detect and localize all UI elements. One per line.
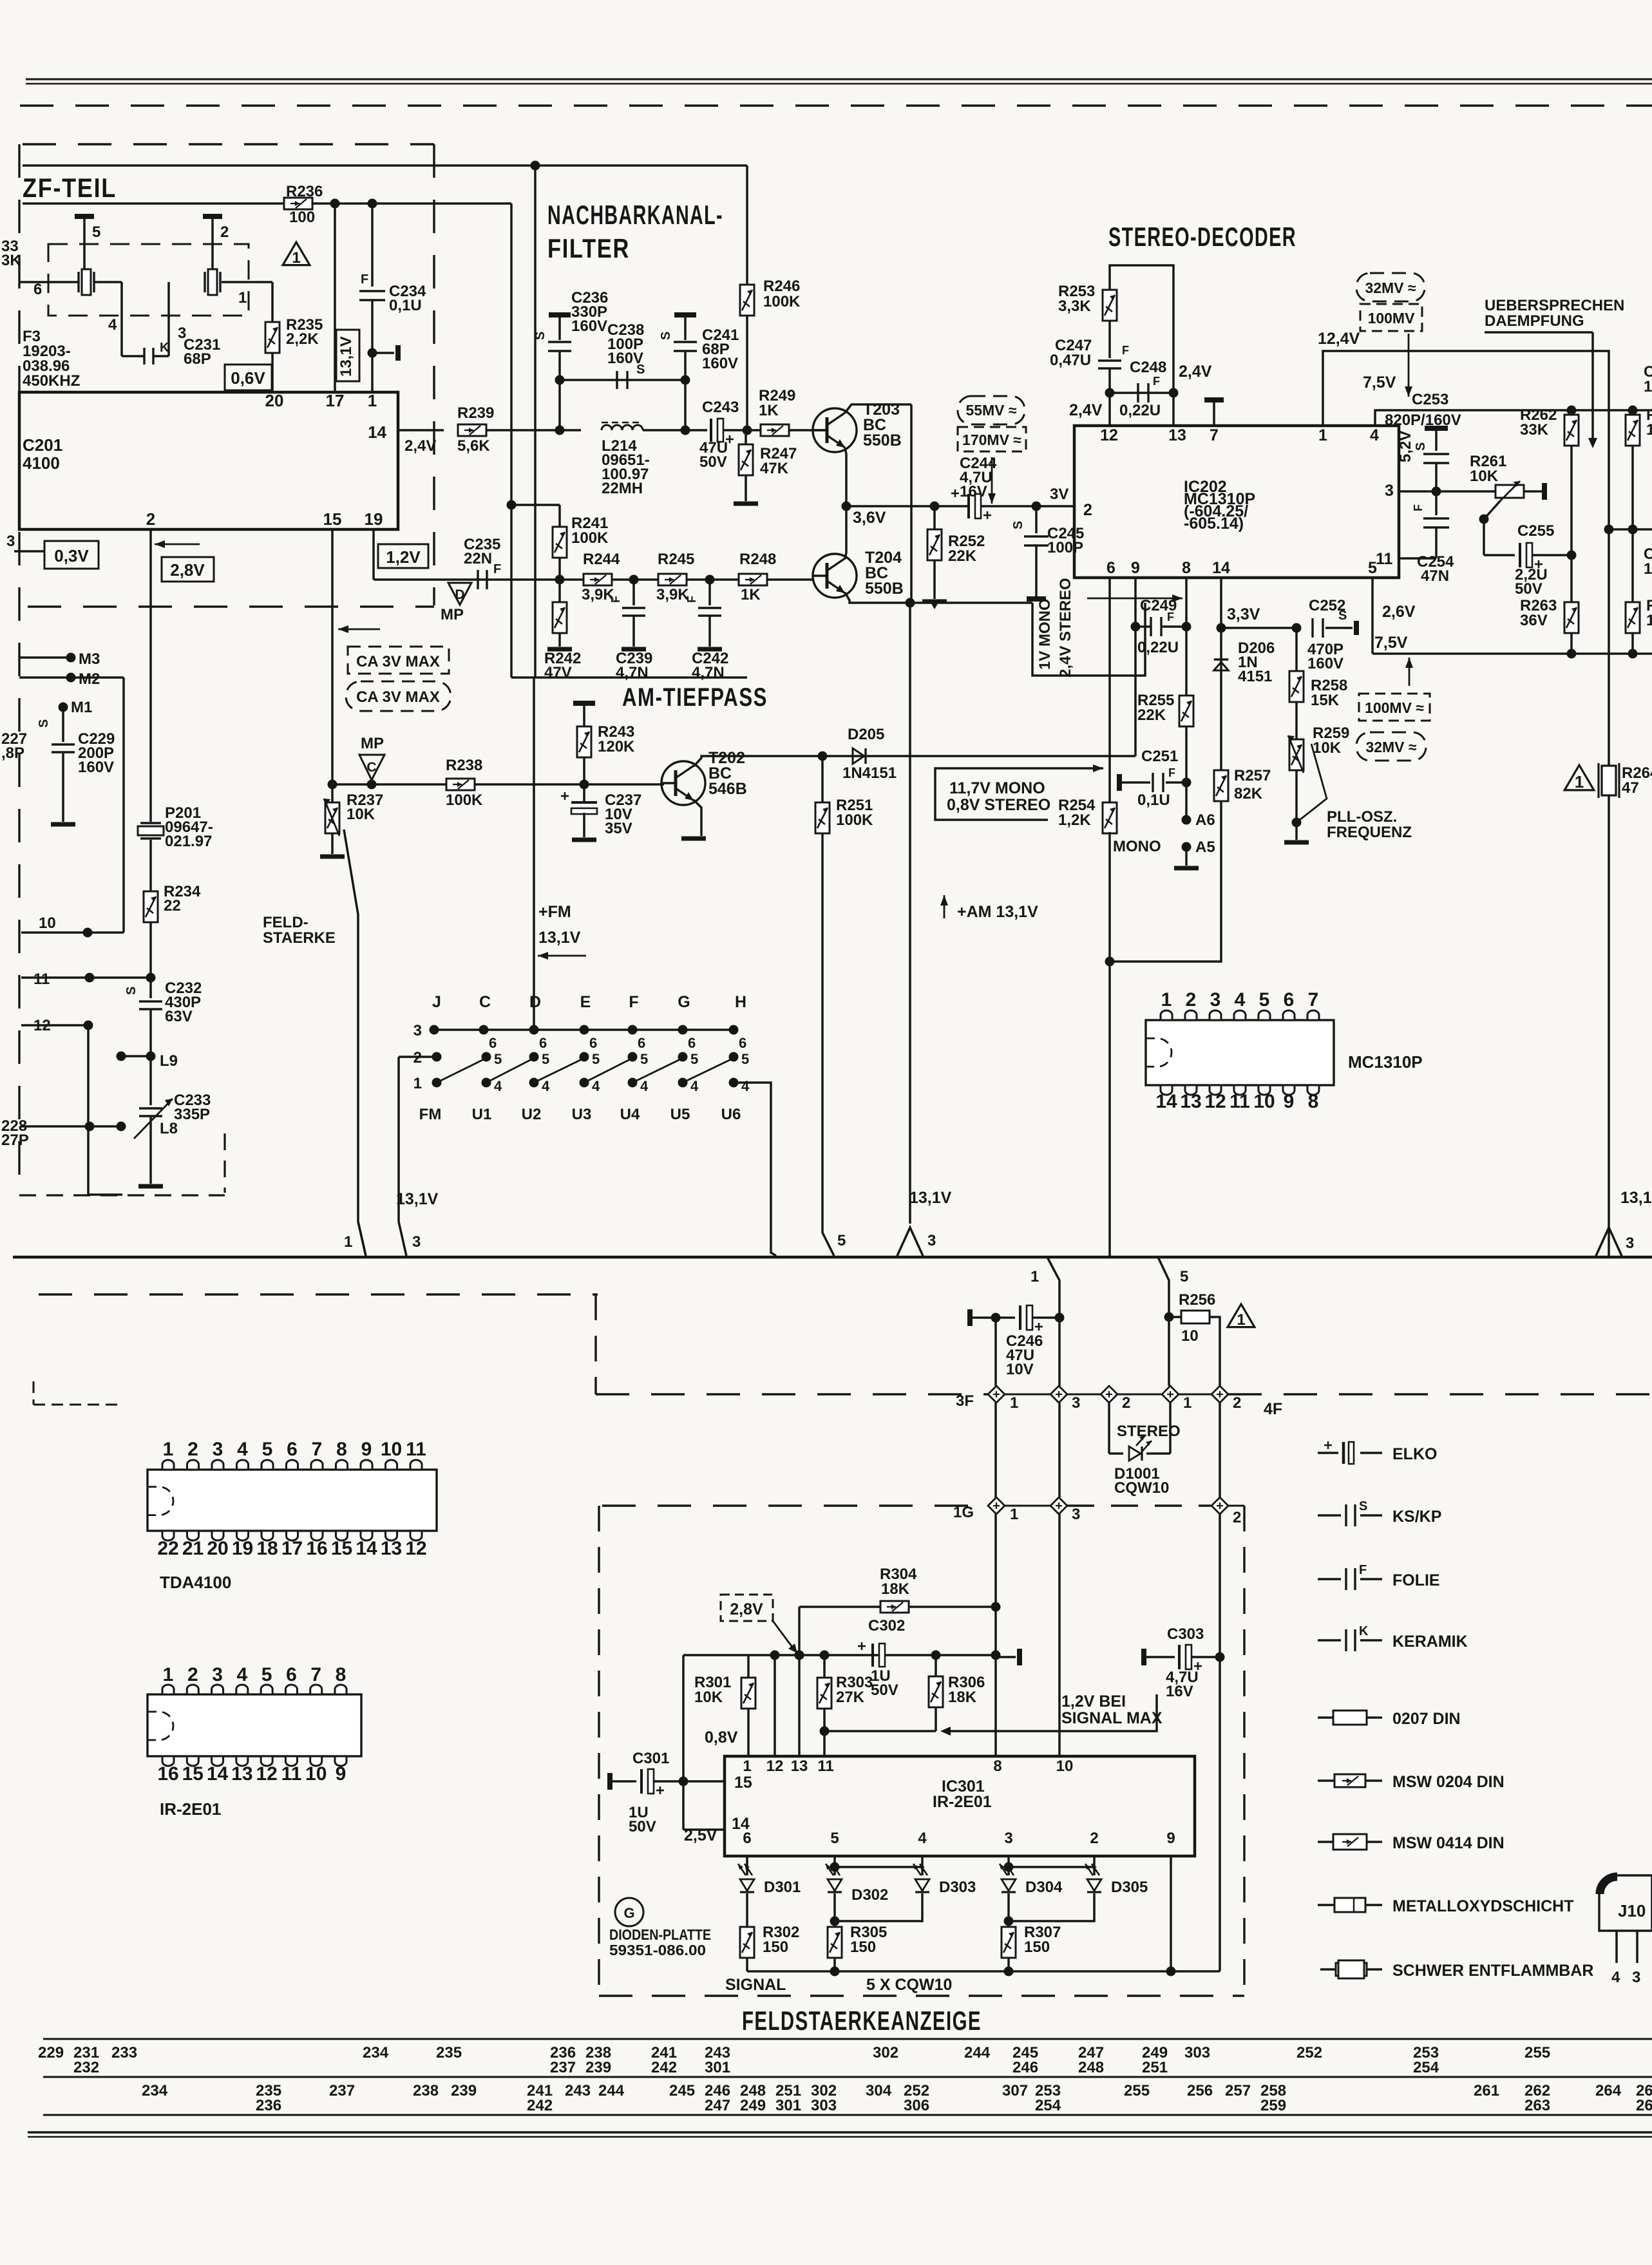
svg-text:0,3V: 0,3V bbox=[54, 546, 89, 565]
LED D301 bbox=[740, 1879, 754, 1891]
potentiometer R237 bbox=[331, 784, 334, 802]
svg-text:D303: D303 bbox=[939, 1879, 976, 1896]
dashed A mid2 bbox=[1067, 1394, 1101, 1396]
svg-text:243: 243 bbox=[565, 2082, 591, 2099]
wire pin3 down bbox=[1007, 1856, 1010, 1875]
wire R239 to L214 bbox=[486, 429, 581, 431]
wire D303 loop bbox=[835, 1893, 922, 1921]
svg-text:9: 9 bbox=[361, 1439, 372, 1460]
svg-text:22K: 22K bbox=[948, 547, 977, 565]
svg-text:-605.14): -605.14) bbox=[1184, 515, 1244, 533]
junction bbox=[328, 780, 337, 790]
svg-text:STEREO-DECODER: STEREO-DECODER bbox=[1108, 222, 1296, 252]
capacitor C244 bbox=[967, 494, 970, 518]
svg-text:S: S bbox=[124, 987, 138, 995]
capacitor C233 variable bbox=[149, 1056, 152, 1105]
svg-text:50V: 50V bbox=[1515, 580, 1543, 598]
MP triangle D bbox=[448, 583, 471, 605]
svg-text:U2: U2 bbox=[522, 1106, 542, 1123]
T203 collector wire bbox=[845, 404, 911, 413]
svg-text:1: 1 bbox=[1646, 421, 1652, 439]
dashed line A right bbox=[1228, 1393, 1652, 1395]
NACHBAR box left edge bbox=[534, 166, 536, 678]
chevron 3 mid bbox=[897, 1227, 923, 1256]
svg-text:1V MONO: 1V MONO bbox=[1036, 598, 1054, 670]
svg-text:1N4151: 1N4151 bbox=[842, 764, 897, 782]
svg-text:C253: C253 bbox=[1412, 391, 1448, 408]
wire AM column bbox=[910, 404, 913, 603]
wire pin14 link bbox=[683, 1828, 725, 1831]
FELD bottom bus bbox=[747, 1970, 1220, 1973]
trimmer P201 bbox=[140, 822, 161, 824]
junction bbox=[1567, 551, 1577, 560]
svg-text:5: 5 bbox=[542, 1051, 549, 1067]
svg-text:36V: 36V bbox=[1520, 612, 1548, 629]
wire R257 bottom bbox=[1110, 801, 1221, 962]
svg-text:4: 4 bbox=[690, 1078, 699, 1094]
capacitor C232 bbox=[149, 978, 152, 998]
svg-text:C255: C255 bbox=[1517, 522, 1554, 540]
wire C241 down bbox=[684, 380, 687, 430]
capacitor C253 bbox=[1425, 426, 1448, 431]
svg-text:15: 15 bbox=[323, 509, 342, 529]
svg-text:15K: 15K bbox=[1311, 692, 1340, 709]
diamond 3a bbox=[1050, 1386, 1067, 1403]
svg-text:R256: R256 bbox=[1179, 1291, 1215, 1309]
svg-text:S: S bbox=[37, 719, 51, 728]
svg-text:9: 9 bbox=[1166, 1830, 1175, 1847]
wire pin2 column bbox=[149, 529, 152, 822]
svg-text:17: 17 bbox=[326, 391, 345, 410]
wire pin15 column bbox=[331, 529, 334, 784]
svg-text:1: 1 bbox=[1161, 989, 1172, 1010]
svg-text:5: 5 bbox=[1259, 989, 1270, 1010]
LED D1001 stereo bbox=[1109, 1452, 1123, 1455]
svg-text:9: 9 bbox=[1284, 1091, 1295, 1112]
svg-text:550B: 550B bbox=[863, 431, 902, 450]
svg-text:247: 247 bbox=[705, 2097, 730, 2114]
svg-text:13: 13 bbox=[791, 1758, 808, 1775]
svg-text:KERAMIK: KERAMIK bbox=[1392, 1633, 1468, 1651]
dashed small corner bbox=[33, 1381, 35, 1405]
svg-text:S: S bbox=[533, 332, 547, 340]
svg-text:5: 5 bbox=[640, 1051, 648, 1067]
resistor R236 bbox=[284, 198, 312, 209]
svg-text:C302: C302 bbox=[868, 1617, 905, 1635]
svg-text:2,8V: 2,8V bbox=[730, 1600, 763, 1618]
resistor R258 bbox=[1295, 628, 1298, 671]
svg-text:10: 10 bbox=[1056, 1758, 1074, 1775]
T204 emitter wire bbox=[845, 592, 910, 603]
resistor R301 bbox=[747, 1655, 750, 1678]
slant connector 1 bbox=[1047, 1257, 1059, 1318]
diode D205 bbox=[853, 748, 864, 764]
svg-text:U1: U1 bbox=[472, 1106, 492, 1123]
T202 emitter bbox=[694, 800, 701, 836]
dashed A mid3 bbox=[1117, 1394, 1162, 1396]
svg-text:4: 4 bbox=[741, 1078, 750, 1094]
svg-text:M3: M3 bbox=[79, 650, 100, 668]
svg-text:307: 307 bbox=[1002, 2082, 1028, 2099]
svg-text:2,6V: 2,6V bbox=[1382, 603, 1416, 621]
svg-text:F: F bbox=[1168, 766, 1175, 779]
svg-text:12: 12 bbox=[256, 1763, 277, 1785]
svg-text:238: 238 bbox=[413, 2082, 439, 2099]
svg-text:1: 1 bbox=[163, 1664, 174, 1685]
svg-text:S: S bbox=[1011, 521, 1025, 529]
capacitor C238 bbox=[616, 371, 618, 389]
wire 2b col down bbox=[1219, 1657, 1221, 1971]
svg-text:3,9K: 3,9K bbox=[656, 586, 689, 603]
T203 emitter wire bbox=[845, 448, 846, 506]
svg-text:263: 263 bbox=[1524, 2097, 1550, 2114]
box CA 3V MAX bbox=[348, 647, 449, 674]
IC IC202 box bbox=[1074, 426, 1399, 578]
crystal Q1 top stub bbox=[83, 219, 86, 272]
svg-text:J: J bbox=[432, 993, 441, 1011]
svg-text:244: 244 bbox=[964, 2044, 991, 2061]
svg-text:5: 5 bbox=[741, 1051, 749, 1067]
svg-text:12: 12 bbox=[1100, 426, 1118, 444]
svg-text:E: E bbox=[580, 993, 591, 1011]
wire 2a column bbox=[1108, 1403, 1110, 1454]
svg-text:6: 6 bbox=[1106, 559, 1116, 577]
svg-text:8: 8 bbox=[993, 1758, 1002, 1775]
ground bbox=[320, 855, 345, 859]
svg-text:335P: 335P bbox=[174, 1106, 210, 1123]
svg-text:0,22U: 0,22U bbox=[1119, 402, 1161, 419]
arrow 7,5V up bbox=[1409, 658, 1410, 686]
box 2,8V dashed bbox=[721, 1595, 773, 1621]
svg-text:METALLOXYDSCHICHT: METALLOXYDSCHICHT bbox=[1392, 1897, 1573, 1915]
svg-text:82K: 82K bbox=[1234, 785, 1263, 802]
svg-text:R238: R238 bbox=[446, 757, 482, 774]
resistor R243 bbox=[577, 726, 591, 757]
svg-text:6: 6 bbox=[743, 1830, 751, 1847]
svg-text:1,2K: 1,2K bbox=[1058, 811, 1091, 829]
svg-text:2: 2 bbox=[187, 1664, 198, 1685]
resistor R246 bbox=[740, 285, 754, 316]
wire R304 row bbox=[799, 1606, 880, 1608]
diamond 2c bbox=[1211, 1497, 1228, 1514]
svg-text:11: 11 bbox=[1230, 1091, 1250, 1112]
svg-text:13,1V: 13,1V bbox=[538, 929, 581, 947]
wire pin19 column bbox=[372, 529, 375, 580]
FELD box dashed left bbox=[598, 1506, 600, 1996]
svg-text:C301: C301 bbox=[632, 1750, 669, 1767]
wire switch row6 bbox=[434, 1028, 734, 1031]
contact A6 bbox=[1182, 815, 1192, 825]
svg-text:0,1U: 0,1U bbox=[389, 297, 422, 314]
wire F3 in bbox=[20, 281, 79, 283]
ground bbox=[1284, 840, 1309, 845]
wire crystal2 out bbox=[222, 281, 272, 283]
svg-text:13,1V: 13,1V bbox=[1620, 1189, 1652, 1207]
svg-text:8: 8 bbox=[1182, 559, 1191, 577]
svg-text:2: 2 bbox=[220, 223, 229, 241]
svg-text:3: 3 bbox=[1632, 1969, 1640, 1986]
svg-text:5: 5 bbox=[494, 1051, 502, 1067]
svg-text:C248: C248 bbox=[1130, 359, 1166, 376]
svg-text:4: 4 bbox=[542, 1078, 550, 1094]
svg-text:3: 3 bbox=[1385, 482, 1394, 500]
svg-text:100K: 100K bbox=[571, 529, 609, 547]
capacitor C246 bbox=[967, 1309, 973, 1326]
svg-text:16V: 16V bbox=[1166, 1683, 1193, 1700]
G circle bbox=[615, 1898, 643, 1926]
svg-text:021.97: 021.97 bbox=[165, 833, 212, 850]
svg-text:10V: 10V bbox=[1006, 1361, 1034, 1378]
svg-text:245: 245 bbox=[669, 2082, 695, 2099]
oval 32MV bbox=[1356, 273, 1425, 301]
svg-text:1: 1 bbox=[1644, 560, 1652, 578]
svg-text:10: 10 bbox=[1181, 1327, 1199, 1345]
resistor R304 bbox=[880, 1601, 909, 1613]
svg-text:27P: 27P bbox=[1, 1132, 29, 1149]
ground bbox=[734, 502, 758, 506]
resistor R265 bbox=[1631, 410, 1634, 415]
svg-text:5,6K: 5,6K bbox=[457, 437, 490, 455]
svg-text:D304: D304 bbox=[1025, 1879, 1063, 1896]
R261 wiper to C255 bbox=[1484, 500, 1501, 555]
index rule 1 bbox=[43, 2038, 1652, 2040]
svg-text:2: 2 bbox=[1090, 1830, 1098, 1847]
svg-text:266: 266 bbox=[1636, 2097, 1652, 2114]
svg-text:236: 236 bbox=[256, 2097, 281, 2114]
svg-text:5: 5 bbox=[592, 1051, 600, 1067]
wire R235 to pin20 bbox=[271, 353, 274, 392]
svg-text:5,2V: 5,2V bbox=[1397, 431, 1414, 462]
svg-text:59351-086.00: 59351-086.00 bbox=[609, 1942, 706, 1958]
svg-text:6: 6 bbox=[287, 1439, 298, 1460]
svg-text:13,1V: 13,1V bbox=[337, 336, 355, 377]
svg-text:F: F bbox=[685, 596, 698, 603]
svg-text:2: 2 bbox=[1122, 1394, 1130, 1412]
stub right of col8 bbox=[996, 1656, 1016, 1658]
svg-text:160V: 160V bbox=[571, 317, 607, 335]
svg-text:261: 261 bbox=[1474, 2082, 1499, 2099]
svg-text:MC1310P: MC1310P bbox=[1348, 1052, 1423, 1072]
svg-text:22: 22 bbox=[157, 1538, 178, 1559]
svg-text:8: 8 bbox=[336, 1664, 347, 1685]
svg-text:3: 3 bbox=[6, 533, 15, 550]
wire C236-C238 bbox=[560, 379, 685, 381]
svg-text:15: 15 bbox=[331, 1538, 352, 1559]
svg-text:2,8V: 2,8V bbox=[170, 560, 205, 580]
contacts row5 bbox=[432, 1052, 442, 1062]
legend MSW 0414 DIN bbox=[1318, 1841, 1333, 1843]
svg-text:7,5V: 7,5V bbox=[1363, 374, 1396, 392]
wire pin3 bbox=[1399, 490, 1495, 493]
svg-text:R246: R246 bbox=[763, 278, 800, 295]
chevron 5 mid bbox=[822, 1224, 834, 1256]
svg-text:F: F bbox=[1359, 1563, 1367, 1577]
svg-text:4: 4 bbox=[640, 1078, 649, 1094]
svg-text:233: 233 bbox=[111, 2044, 137, 2061]
svg-text:5: 5 bbox=[262, 1439, 273, 1460]
svg-text:2,5V: 2,5V bbox=[684, 1826, 717, 1844]
svg-text:G: G bbox=[623, 1905, 634, 1921]
wire 2500-2535 bbox=[1609, 528, 1652, 531]
svg-text:FREQUENZ: FREQUENZ bbox=[1327, 824, 1412, 841]
svg-text:3: 3 bbox=[1072, 1506, 1080, 1523]
junction bbox=[1131, 622, 1141, 632]
junction bbox=[906, 598, 915, 608]
junction bbox=[818, 752, 828, 761]
svg-text:9: 9 bbox=[336, 1763, 347, 1785]
dashed A mid4 bbox=[1179, 1394, 1211, 1396]
wire C235 row bbox=[374, 578, 813, 581]
chevron 3 right bbox=[1596, 1227, 1622, 1256]
wire pin12 stub bbox=[1108, 393, 1111, 426]
junction 3,3V bbox=[1217, 623, 1226, 633]
wire pin9 col bbox=[1134, 578, 1137, 756]
inductor L214 bbox=[602, 425, 643, 430]
wire 3,3V row bbox=[1221, 627, 1296, 629]
svg-text:7: 7 bbox=[310, 1664, 321, 1685]
voltage box 0,6V bbox=[225, 365, 272, 390]
resistor R257 bbox=[1214, 770, 1228, 801]
capacitor C254 bbox=[1435, 491, 1438, 515]
wire M3 bbox=[19, 656, 71, 659]
svg-text:PLL-OSZ.: PLL-OSZ. bbox=[1327, 808, 1397, 826]
svg-text:6: 6 bbox=[1284, 989, 1295, 1010]
ground bbox=[547, 647, 572, 652]
svg-text:4: 4 bbox=[237, 1664, 248, 1685]
svg-text:K: K bbox=[1359, 1624, 1369, 1638]
warning triangle bbox=[1228, 1304, 1255, 1327]
svg-text:18K: 18K bbox=[881, 1580, 910, 1598]
svg-text:STEREO: STEREO bbox=[1117, 1423, 1181, 1440]
svg-text:MSW 0414 DIN: MSW 0414 DIN bbox=[1392, 1834, 1505, 1852]
svg-text:100K: 100K bbox=[836, 811, 873, 829]
svg-text:8: 8 bbox=[336, 1439, 347, 1460]
svg-text:3F: 3F bbox=[956, 1392, 974, 1410]
svg-text:257: 257 bbox=[1225, 2082, 1251, 2099]
junction bbox=[1032, 502, 1041, 511]
svg-text:5 X CQW10: 5 X CQW10 bbox=[866, 1976, 952, 1994]
resistor R264 metalloxyd bbox=[1597, 763, 1599, 798]
svg-text:1: 1 bbox=[1183, 1394, 1192, 1412]
svg-text:1: 1 bbox=[1646, 612, 1652, 629]
arrow 170MV down bbox=[991, 457, 993, 504]
resistor R266 bbox=[1626, 602, 1640, 633]
legend FOLIE bbox=[1318, 1578, 1341, 1580]
svg-text:22N: 22N bbox=[464, 550, 492, 567]
svg-text:237: 237 bbox=[329, 2082, 355, 2099]
voltage box 2,8V bbox=[162, 557, 214, 582]
svg-text:3K: 3K bbox=[1, 252, 21, 269]
svg-text:F: F bbox=[609, 596, 622, 603]
voltage box 13,1V bbox=[336, 330, 359, 381]
junction bbox=[1567, 406, 1577, 415]
wire L8 bbox=[21, 1125, 121, 1128]
svg-text:ELKO: ELKO bbox=[1392, 1445, 1437, 1463]
svg-text:11,7V MONO: 11,7V MONO bbox=[949, 779, 1045, 797]
resistor R305 bbox=[828, 1927, 842, 1958]
wire D302-D303 link bbox=[835, 1866, 922, 1868]
svg-text:100MV: 100MV bbox=[1368, 310, 1416, 327]
svg-text:L9: L9 bbox=[160, 1052, 178, 1070]
svg-text:D301: D301 bbox=[764, 1879, 801, 1896]
wire M2 bbox=[19, 676, 124, 679]
svg-text:100K: 100K bbox=[763, 293, 801, 310]
svg-text:47N: 47N bbox=[1421, 567, 1449, 585]
svg-text:2,4V: 2,4V bbox=[1179, 363, 1212, 381]
voltage box 1,2V bbox=[378, 544, 428, 568]
svg-text:IR-2E01: IR-2E01 bbox=[160, 1799, 221, 1819]
svg-text:6: 6 bbox=[589, 1035, 597, 1051]
svg-text:4: 4 bbox=[1235, 989, 1246, 1010]
svg-text:235: 235 bbox=[436, 2044, 462, 2061]
svg-text:12: 12 bbox=[1204, 1091, 1226, 1112]
index rule 2 bbox=[43, 2076, 1652, 2078]
wire pin11 bbox=[1399, 557, 1436, 560]
svg-text:CA 3V MAX: CA 3V MAX bbox=[356, 688, 440, 706]
wire pin13 col bbox=[798, 1607, 801, 1756]
svg-text:3: 3 bbox=[927, 1232, 936, 1249]
arrow +FM bbox=[538, 955, 586, 957]
svg-text:234: 234 bbox=[363, 2044, 389, 2061]
svg-text:35V: 35V bbox=[605, 820, 632, 837]
svg-text:55MV ≈: 55MV ≈ bbox=[965, 402, 1016, 419]
svg-text:14: 14 bbox=[1212, 559, 1230, 577]
wire C234 gnd stub bbox=[368, 348, 377, 358]
arrow 100MV down bbox=[1408, 334, 1410, 397]
svg-text:2,4V: 2,4V bbox=[1069, 401, 1103, 419]
svg-text:12,4V: 12,4V bbox=[1318, 330, 1360, 348]
wire col 3b down bbox=[1058, 1514, 1061, 1756]
svg-text:248: 248 bbox=[1078, 2059, 1104, 2076]
wire pin13 stub bbox=[1172, 393, 1175, 426]
ground arrow bbox=[922, 600, 947, 604]
resistor R239 bbox=[458, 424, 486, 436]
contacts row6 bbox=[430, 1025, 439, 1035]
svg-text:550B: 550B bbox=[865, 580, 904, 598]
IC IC201 TDA4100 bbox=[19, 392, 398, 529]
LED D305 bbox=[1087, 1879, 1101, 1891]
svg-text:R257: R257 bbox=[1234, 767, 1271, 784]
svg-text:S: S bbox=[1414, 442, 1428, 451]
svg-text:1K: 1K bbox=[759, 402, 779, 419]
crystal Q2 bbox=[204, 272, 205, 292]
resistor R302 bbox=[740, 1927, 754, 1958]
svg-text:32MV ≈: 32MV ≈ bbox=[1365, 739, 1416, 755]
svg-text:6: 6 bbox=[489, 1035, 497, 1051]
svg-text:MONO: MONO bbox=[1113, 838, 1161, 855]
R253 loop wire bbox=[1110, 265, 1173, 393]
IC IR-2E01 DIP bbox=[147, 1694, 361, 1756]
svg-text:150: 150 bbox=[1024, 1938, 1050, 1956]
resistor R242 bbox=[558, 580, 561, 602]
svg-text:D305: D305 bbox=[1111, 1879, 1148, 1896]
wire C243-R249 bbox=[723, 429, 761, 431]
svg-text:13: 13 bbox=[381, 1538, 402, 1559]
wire R236 to C234 corner bbox=[510, 204, 513, 678]
LED D302 bbox=[828, 1879, 842, 1891]
svg-text:2: 2 bbox=[187, 1439, 198, 1460]
ZF module dashed boundary bbox=[23, 143, 434, 145]
svg-text:249: 249 bbox=[740, 2097, 766, 2114]
svg-text:6: 6 bbox=[688, 1035, 696, 1051]
svg-text:C: C bbox=[366, 760, 376, 775]
svg-text:234: 234 bbox=[142, 2082, 168, 2099]
svg-text:22K: 22K bbox=[1137, 706, 1166, 724]
svg-text:KS/KP: KS/KP bbox=[1392, 1508, 1441, 1526]
svg-text:2: 2 bbox=[1083, 501, 1092, 519]
svg-text:229: 229 bbox=[38, 2044, 64, 2061]
wire crystal1 to C231 bbox=[94, 281, 122, 283]
